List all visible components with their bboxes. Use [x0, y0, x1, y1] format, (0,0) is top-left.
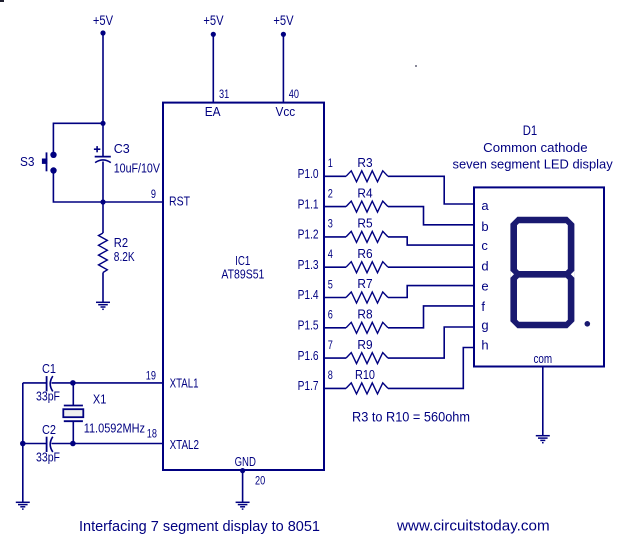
- pin label P1.5: [298, 318, 319, 333]
- svg-text:XTAL1: XTAL1: [170, 376, 199, 391]
- capacitor C1 straight plate: [46, 376, 48, 391]
- label R3: [357, 155, 372, 170]
- svg-text:2: 2: [328, 186, 333, 200]
- wire pin 1 P1.0 to R3: [324, 175, 346, 177]
- node +5V-3 terminal dot: [281, 32, 286, 37]
- svg-text:8.2K: 8.2K: [114, 249, 135, 264]
- crystal X1 bottom lead: [72, 421, 74, 443]
- svg-text:R5: R5: [357, 216, 372, 231]
- switch S3 plunger: [42, 159, 47, 164]
- label C1 value 33pF: [36, 389, 60, 404]
- label R5: [357, 216, 372, 231]
- display D1 body: [474, 187, 604, 366]
- svg-text:AT89S51: AT89S51: [221, 267, 264, 282]
- svg-text:R7: R7: [357, 276, 372, 291]
- svg-text:EA: EA: [205, 104, 221, 119]
- svg-text:Interfacing 7 segment display: Interfacing 7 segment display to 8051: [79, 519, 320, 535]
- svg-text:a: a: [481, 198, 489, 213]
- resistor R4: [346, 201, 388, 212]
- node XTAL1 junction: [70, 380, 76, 386]
- svg-text:11.0592MHz: 11.0592MHz: [84, 421, 145, 436]
- label Common cathode: [483, 140, 587, 155]
- wire pin 4 P1.3 to R6: [324, 266, 346, 268]
- pin label GND: [235, 454, 256, 469]
- power +5V label 3: [273, 12, 294, 28]
- wire S3 top branch: [53, 123, 103, 152]
- svg-text:S3: S3: [20, 154, 35, 169]
- svg-text:Vcc: Vcc: [276, 104, 296, 119]
- wire Vcc supply: [282, 34, 284, 102]
- label resistor network value note: [352, 410, 470, 425]
- capacitor C2 straight plate: [46, 437, 48, 452]
- wire S3 bottom branch: [53, 174, 103, 203]
- svg-text:D1: D1: [523, 122, 538, 138]
- power +5V label 2: [203, 12, 224, 28]
- svg-text:C3: C3: [114, 141, 130, 156]
- svg-text:9: 9: [151, 187, 156, 201]
- wire R5 to display pin c: [388, 237, 474, 245]
- svg-text:X1: X1: [93, 392, 107, 407]
- svg-text:R9: R9: [357, 337, 372, 352]
- wire RST into IC: [103, 201, 163, 203]
- svg-text:P1.2: P1.2: [298, 227, 319, 242]
- power +5V label 1: [93, 12, 114, 28]
- pin label XTAL2: [170, 437, 199, 452]
- wire R10 to display pin h: [388, 348, 474, 389]
- svg-text:C2: C2: [42, 422, 56, 437]
- label R7: [357, 276, 372, 291]
- label R9: [357, 337, 372, 352]
- label C1: [42, 361, 56, 376]
- label X1 value 11.0592MHz: [84, 421, 145, 436]
- node XTAL2 junction: [70, 441, 76, 447]
- caption website: [396, 518, 550, 535]
- svg-text:P1.6: P1.6: [298, 348, 319, 363]
- label AT89S51: [221, 267, 264, 282]
- svg-text:R4: R4: [357, 185, 372, 200]
- display pin label b: [481, 219, 488, 234]
- svg-text:10uF/10V: 10uF/10V: [114, 161, 161, 176]
- pin number 5: [328, 277, 333, 291]
- node +5V-1 terminal dot: [100, 30, 105, 35]
- display pin label a: [481, 198, 489, 213]
- ground under R2: [96, 302, 110, 309]
- wire +5V-1 down to C3/S3: [102, 33, 104, 156]
- svg-text:33pF: 33pF: [36, 450, 60, 465]
- pin number 19: [146, 369, 156, 383]
- svg-text:P1.1: P1.1: [298, 196, 319, 211]
- switch S3 label: [20, 154, 35, 169]
- pin number 40: [289, 87, 299, 101]
- svg-text:C1: C1: [42, 361, 56, 376]
- wire EA supply: [212, 34, 214, 102]
- svg-text:33pF: 33pF: [36, 389, 60, 404]
- stray speck: [415, 65, 417, 67]
- pin number 20: [255, 474, 265, 488]
- svg-text:P1.7: P1.7: [298, 378, 319, 393]
- wire R2 to ground: [102, 273, 104, 303]
- svg-text:g: g: [481, 317, 488, 332]
- capacitor C2 curved plate: [50, 437, 53, 452]
- svg-text:h: h: [481, 338, 488, 353]
- wire C3 to RST node: [102, 162, 104, 234]
- resistor R10: [346, 383, 388, 394]
- svg-text:R3: R3: [357, 155, 372, 170]
- caption title: [79, 519, 320, 535]
- svg-text:seven segment LED display: seven segment LED display: [453, 157, 614, 172]
- wire left rail to ground: [22, 383, 24, 502]
- svg-text:P1.4: P1.4: [298, 287, 319, 302]
- label R8: [357, 307, 372, 322]
- label C3: [114, 141, 130, 156]
- svg-text:R8: R8: [357, 307, 372, 322]
- svg-text:P1.3: P1.3: [298, 257, 319, 272]
- ground left rail: [16, 502, 30, 509]
- crystal X1 body: [63, 409, 83, 417]
- pin number 9: [151, 187, 156, 201]
- capacitor C1 curved plate: [50, 376, 53, 391]
- switch S3 terminal dots: [50, 152, 56, 158]
- pin label P1.1: [298, 196, 319, 211]
- pin number 8: [328, 368, 333, 382]
- wire R7 to display pin e: [388, 286, 474, 298]
- wire C1 left lead: [23, 382, 47, 384]
- svg-text:R10: R10: [355, 367, 375, 382]
- label X1: [93, 392, 107, 407]
- display pin label d: [481, 259, 488, 274]
- pin label P1.3: [298, 257, 319, 272]
- svg-text:P1.0: P1.0: [298, 166, 319, 181]
- wire pin 5 P1.4 to R7: [324, 297, 346, 299]
- label R2 value 8.2K: [114, 249, 135, 264]
- svg-text:6: 6: [328, 308, 333, 322]
- svg-text:3: 3: [328, 217, 333, 231]
- label com: [533, 351, 552, 366]
- label R6: [357, 246, 372, 261]
- pin number 7: [328, 338, 333, 352]
- display pin label c: [481, 238, 488, 253]
- svg-text:R6: R6: [357, 246, 372, 261]
- resistor R9: [346, 353, 388, 364]
- svg-text:RST: RST: [169, 194, 190, 209]
- svg-text:4: 4: [328, 247, 333, 261]
- pin label P1.2: [298, 227, 319, 242]
- crystal X1 bottom electrode: [64, 420, 83, 422]
- wire GND pin 20: [242, 470, 244, 502]
- digit segment gap notch left of middle: [510, 271, 514, 278]
- capacitor C3 top plate: [95, 156, 111, 158]
- pin label P1.6: [298, 348, 319, 363]
- label C2 value 33pF: [36, 450, 60, 465]
- wire pin 3 P1.2 to R5: [324, 236, 346, 238]
- pin label XTAL1: [170, 376, 199, 391]
- pin number 6: [328, 308, 333, 322]
- display pin label e: [481, 278, 488, 293]
- wire C2 left lead: [23, 443, 47, 445]
- label R10: [355, 367, 375, 382]
- digit D1 seven-segment body (segments A B C D E F G lit): [510, 217, 574, 329]
- svg-text:1: 1: [328, 156, 333, 170]
- wire C2 to XTAL2: [52, 443, 164, 445]
- display pin label h: [481, 338, 488, 353]
- wire C1 to XTAL1: [52, 382, 164, 384]
- node junction above C3: [100, 121, 105, 126]
- svg-text:e: e: [481, 278, 488, 293]
- label C2: [42, 422, 56, 437]
- pin number 31: [219, 87, 229, 101]
- capacitor C3 plus sign: [94, 148, 100, 150]
- pin number 3: [328, 217, 333, 231]
- svg-text:5: 5: [328, 277, 333, 291]
- pin number 18: [147, 426, 157, 440]
- svg-text:XTAL2: XTAL2: [170, 437, 199, 452]
- resistor R5: [346, 231, 388, 242]
- wire pin 8 P1.7 to R10: [324, 387, 346, 389]
- pin number 2: [328, 186, 333, 200]
- svg-text:R3 to R10 = 560ohm: R3 to R10 = 560ohm: [352, 410, 470, 425]
- svg-text:+5V: +5V: [273, 12, 294, 28]
- resistor R7: [346, 292, 388, 303]
- svg-text:c: c: [481, 238, 488, 253]
- label C3 value 10uF/10V: [114, 161, 161, 176]
- svg-text:b: b: [481, 219, 488, 234]
- svg-text:f: f: [481, 299, 485, 314]
- wire display common to ground: [542, 367, 544, 436]
- resistor R8: [346, 322, 388, 333]
- svg-text:com: com: [533, 351, 552, 366]
- label D1: [523, 122, 538, 138]
- ground under GND pin: [236, 502, 250, 509]
- pin label EA: [205, 104, 221, 119]
- svg-text:www.circuitstoday.com: www.circuitstoday.com: [396, 518, 550, 535]
- svg-text:40: 40: [289, 87, 299, 101]
- label IC1: [235, 253, 250, 268]
- svg-text:19: 19: [146, 369, 156, 383]
- node C2 left junction: [20, 441, 26, 447]
- label R2: [114, 235, 128, 250]
- digit segment gap notch right of middle: [571, 271, 575, 278]
- wire pin 6 P1.5 to R8: [324, 327, 346, 329]
- wire R6 to display pin d: [388, 266, 474, 268]
- ground display common: [536, 436, 550, 443]
- pin label Vcc: [276, 104, 296, 119]
- display pin label g: [481, 317, 488, 332]
- capacitor C3 curved plate: [95, 160, 111, 163]
- svg-text:+5V: +5V: [93, 12, 114, 28]
- switch S3 actuator bar: [46, 152, 48, 171]
- corner artifact: [0, 0, 4, 2]
- pin number 1: [328, 156, 333, 170]
- crystal X1 top electrode: [64, 405, 83, 407]
- svg-text:8: 8: [328, 368, 333, 382]
- pin label P1.0: [298, 166, 319, 181]
- label R4: [357, 185, 372, 200]
- wire pin 2 P1.1 to R4: [324, 206, 346, 208]
- svg-text:R2: R2: [114, 235, 128, 250]
- wire R8 to display pin f: [388, 306, 474, 328]
- pin number 4: [328, 247, 333, 261]
- pin label RST: [169, 194, 190, 209]
- wire R9 to display pin g: [388, 327, 474, 358]
- svg-text:20: 20: [255, 474, 265, 488]
- digit decimal point: [585, 321, 591, 327]
- display pin label f: [481, 299, 485, 314]
- wire R3 to display pin a: [388, 176, 474, 204]
- node GND pin junction: [240, 468, 245, 473]
- svg-text:31: 31: [219, 87, 229, 101]
- svg-text:7: 7: [328, 338, 333, 352]
- svg-text:Common cathode: Common cathode: [483, 140, 587, 155]
- node RST junction: [100, 199, 105, 204]
- node +5V-2 terminal dot: [211, 32, 216, 37]
- resistor R2: [99, 233, 108, 273]
- svg-text:GND: GND: [235, 454, 256, 469]
- crystal X1 top lead: [72, 383, 74, 406]
- svg-text:P1.5: P1.5: [298, 318, 319, 333]
- IC U1 AT89S51 body: [163, 103, 324, 470]
- svg-text:d: d: [481, 259, 488, 274]
- label seven segment LED display: [453, 157, 614, 172]
- resistor R6: [346, 262, 388, 273]
- resistor R3: [346, 171, 388, 182]
- svg-text:18: 18: [147, 426, 157, 440]
- svg-text:+5V: +5V: [203, 12, 224, 28]
- wire R4 to display pin b: [388, 207, 474, 225]
- pin label P1.7: [298, 378, 319, 393]
- pin label P1.4: [298, 287, 319, 302]
- wire pin 7 P1.6 to R9: [324, 357, 346, 359]
